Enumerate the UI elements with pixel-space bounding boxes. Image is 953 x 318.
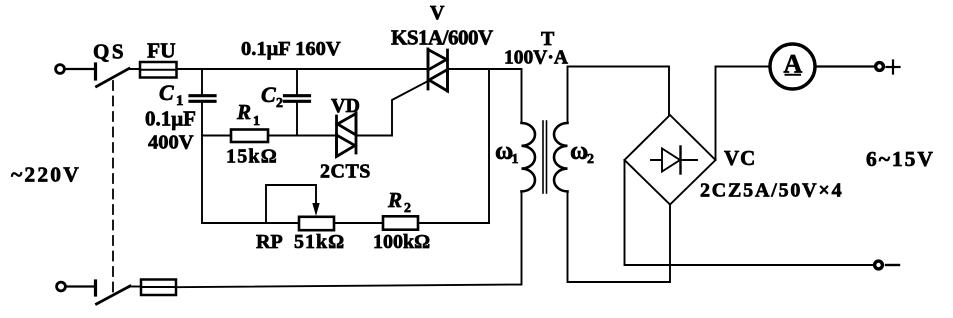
svg-text:6~15V: 6~15V bbox=[866, 147, 935, 171]
svg-text:2: 2 bbox=[276, 96, 283, 111]
svg-text:2: 2 bbox=[404, 201, 411, 216]
resistor R2 bbox=[383, 216, 418, 229]
plus sign bbox=[887, 66, 900, 68]
transformer core bbox=[542, 121, 544, 193]
svg-text:100kΩ: 100kΩ bbox=[373, 231, 430, 253]
capacitor C2 bbox=[285, 69, 310, 136]
svg-text:15kΩ: 15kΩ bbox=[226, 146, 278, 168]
svg-text:1: 1 bbox=[253, 114, 260, 129]
svg-text:FU: FU bbox=[147, 39, 176, 63]
switch QS pole 2 fixed contact bbox=[94, 281, 97, 295]
input terminal top-left bbox=[56, 65, 65, 74]
switch QS pole 1 blade bbox=[97, 69, 130, 87]
wire bbox=[334, 222, 383, 224]
svg-text:0.1μF: 0.1μF bbox=[145, 107, 196, 131]
wire bbox=[268, 135, 336, 137]
wire R2 net up bbox=[488, 69, 490, 223]
svg-text:~220V: ~220V bbox=[11, 163, 81, 187]
wire bridge plus output bbox=[716, 67, 770, 161]
svg-text:ω: ω bbox=[570, 138, 588, 165]
fuse FU bbox=[140, 62, 177, 78]
output terminal plus bbox=[876, 63, 884, 71]
potentiometer RP wiper loop bbox=[266, 185, 320, 223]
svg-text:C: C bbox=[261, 82, 276, 107]
wire bbox=[130, 286, 141, 288]
wire into primary bbox=[521, 69, 523, 123]
bridge diode bbox=[651, 147, 697, 174]
wire bbox=[65, 68, 93, 70]
bridge rectifier VC diamond bbox=[625, 115, 716, 205]
diac VD bbox=[337, 113, 357, 157]
svg-text:1: 1 bbox=[512, 152, 519, 167]
svg-text:KS1A/600V: KS1A/600V bbox=[391, 26, 493, 50]
triac V bbox=[428, 49, 448, 91]
wire top rail bbox=[128, 68, 428, 70]
svg-text:2CTS: 2CTS bbox=[320, 161, 371, 183]
svg-text:400V: 400V bbox=[148, 132, 194, 154]
svg-text:2: 2 bbox=[587, 152, 594, 167]
wire node C1 down bbox=[201, 103, 203, 224]
wire gate path bbox=[356, 81, 429, 136]
switch QS pole 1 fixed contact bbox=[94, 64, 97, 79]
wire RP rail bbox=[202, 222, 299, 224]
minus sign bbox=[886, 264, 899, 266]
svg-text:51kΩ: 51kΩ bbox=[294, 231, 345, 253]
wire primary bottom bbox=[176, 191, 522, 287]
transformer secondary w2 bbox=[554, 123, 568, 191]
mechanical link dashed bbox=[112, 81, 114, 296]
svg-text:R: R bbox=[236, 100, 251, 124]
wire R1 row bbox=[202, 135, 231, 137]
input terminal bottom-left bbox=[57, 282, 66, 291]
wire ammeter to terminal bbox=[815, 65, 874, 67]
resistor R1 bbox=[231, 130, 268, 143]
svg-text:VD: VD bbox=[331, 95, 360, 117]
wire triac to transformer bbox=[448, 68, 522, 70]
transformer primary w1 bbox=[522, 123, 536, 191]
fuse bottom bbox=[141, 280, 176, 296]
ammeter A bbox=[770, 44, 815, 89]
switch QS pole 2 blade bbox=[97, 286, 131, 304]
svg-text:QS: QS bbox=[93, 40, 126, 64]
svg-text:0.1μF 160V: 0.1μF 160V bbox=[241, 38, 341, 60]
svg-text:A: A bbox=[784, 50, 803, 79]
capacitor C1 bbox=[190, 69, 215, 101]
output terminal minus bbox=[875, 261, 883, 269]
svg-text:R: R bbox=[387, 188, 402, 212]
svg-text:2CZ5A/50V×4: 2CZ5A/50V×4 bbox=[700, 180, 843, 202]
wire bbox=[66, 285, 93, 287]
svg-text:100V·A: 100V·A bbox=[504, 48, 568, 69]
svg-text:RP: RP bbox=[256, 231, 283, 253]
wire bbox=[418, 222, 489, 224]
wire secondary bottom bbox=[568, 191, 671, 282]
wire bridge minus output bbox=[625, 160, 874, 265]
svg-text:C: C bbox=[159, 80, 174, 105]
svg-text:VC: VC bbox=[724, 146, 756, 170]
potentiometer RP body bbox=[299, 217, 334, 230]
wire secondary top bbox=[568, 67, 670, 124]
svg-text:V: V bbox=[430, 2, 445, 24]
